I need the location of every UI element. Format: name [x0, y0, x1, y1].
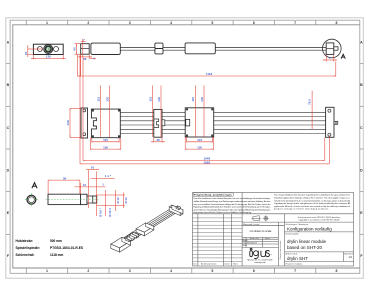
grid letters left	[7, 41, 10, 258]
svg-text:Fuer Konstruktionen unter Verw: Fuer Konstruktionen unter Verwendung der…	[194, 197, 271, 200]
svg-text:6: 6	[253, 269, 255, 273]
dim 130 under carriage1	[90, 138, 120, 150]
vertical dims mid support	[153, 86, 161, 138]
svg-text:Bearb. Dat.: Bearb. Dat.	[250, 237, 260, 240]
svg-text:Hub/stroke:: Hub/stroke:	[16, 239, 34, 243]
svg-text:8: 8	[336, 269, 338, 273]
svg-text:1: 1	[46, 21, 48, 25]
shaft detail body	[48, 194, 81, 204]
plan left end plate	[81, 108, 88, 138]
projection symbol	[252, 215, 270, 221]
svg-text:regarding the design and/or co: regarding the design and/or completeness…	[274, 202, 351, 205]
svg-text:26/04/2017: 26/04/2017	[247, 243, 258, 245]
svg-text:Massstab / scale: Massstab / scale	[243, 223, 260, 226]
svg-text:Spicher Str. 1a, 51147 Koeln: Spicher Str. 1a, 51147 Koeln	[247, 258, 272, 261]
svg-text:40: 40	[73, 47, 77, 51]
svg-text:Blatt Sheet: Blatt Sheet	[344, 252, 353, 255]
middle column	[277, 222, 279, 266]
plan right end plate	[326, 107, 334, 137]
svg-text:The responsibility for the dec: The responsibility for the decision rega…	[274, 194, 350, 197]
svg-text:130: 130	[46, 55, 51, 59]
svg-text:Ersatz für / replaces: Ersatz für / replaces	[286, 263, 303, 266]
svg-text:product already in further dev: product already in further developed pro…	[274, 208, 329, 211]
svg-text:115: 115	[191, 97, 195, 102]
svg-text:2: 2	[87, 21, 89, 25]
dim 115 under carriage2	[187, 137, 213, 142]
legal text right column	[274, 194, 351, 211]
small table	[243, 237, 270, 247]
svg-text:Aenderung/revision: Aenderung/revision	[201, 262, 216, 265]
long dim 1046	[83, 57, 325, 160]
svg-text:Schutzvermerk nach DIN ISO 160: Schutzvermerk nach DIN ISO 16016 beachte…	[298, 216, 342, 219]
side view motor block	[91, 43, 120, 54]
svg-text:volved in the development of a: volved in the development of a customize…	[274, 199, 351, 202]
svg-text:8: 8	[336, 21, 338, 25]
svg-text:Norm: Norm	[243, 245, 248, 247]
legal text left column	[193, 193, 233, 196]
svg-text:Konfiguration vorläufig: Konfiguration vorläufig	[287, 226, 332, 231]
svg-text:20: 20	[24, 51, 28, 55]
end view center bearing	[44, 45, 53, 54]
grid ticks left	[6, 64, 10, 235]
svg-text:von uns erstellten Konstruktio: von uns erstellten Konstruktionen oblieg…	[194, 203, 271, 206]
svg-text:based on SHT-20: based on SHT-20	[287, 245, 323, 250]
svg-text:500 mm: 500 mm	[50, 239, 62, 243]
long dim 1092	[80, 55, 329, 164]
svg-text:1118 mm: 1118 mm	[50, 253, 63, 257]
svg-text:4: 4	[170, 21, 172, 25]
svg-text:108: 108	[66, 120, 70, 125]
svg-text:Ø 10.4: Ø 10.4	[108, 208, 112, 217]
svg-text:Fragestellung: projektbezogen: Fragestellung: projektbezogen	[194, 194, 233, 197]
revision table rows	[193, 218, 243, 262]
svg-text:2: 2	[87, 269, 89, 273]
iso motor block	[111, 237, 131, 248]
svg-text:1.1 *: 1.1 *	[105, 174, 112, 178]
svg-text:Name: Name	[265, 238, 270, 240]
plan carriage 2	[185, 108, 214, 137]
dim 10 lower	[75, 183, 106, 194]
svg-text:Name: Name	[233, 263, 238, 265]
grid ticks bottom	[26, 268, 316, 273]
dim 7 top of end plate	[81, 39, 86, 57]
detail circle end view	[27, 195, 36, 204]
dim 1.1	[91, 177, 115, 179]
dim 130 under end view	[31, 55, 66, 59]
svg-text:130: 130	[105, 96, 109, 101]
svg-text:drylin linear module: drylin linear module	[287, 239, 327, 244]
dim 36 above shaft	[48, 180, 80, 194]
dim under detail circle	[323, 55, 337, 62]
svg-text:36: 36	[83, 57, 87, 61]
svg-text:individual applications belong: individual applications belongs solely t…	[274, 197, 350, 200]
svg-text:1/1: 1/1	[349, 255, 353, 259]
svg-text:115: 115	[103, 138, 108, 142]
svg-text:Spindel/spindle:: Spindel/spindle:	[16, 246, 41, 250]
side view end plate	[81, 44, 90, 55]
plan middle support	[154, 109, 162, 137]
iso carriage	[136, 223, 154, 232]
svg-text:115: 115	[148, 97, 152, 102]
dim 108 left of plan	[70, 109, 81, 138]
vertical dim right 76.5	[311, 91, 313, 130]
right column	[285, 221, 354, 223]
dim 10	[86, 170, 99, 217]
svg-text:6: 6	[253, 21, 255, 25]
svg-text:application. All tests, checks: application. All tests, checks and trial…	[274, 205, 350, 208]
svg-text:130: 130	[200, 96, 204, 101]
dim 130 under carriage2	[185, 137, 214, 150]
svg-text:10: 10	[91, 165, 95, 169]
svg-text:drylin SHT: drylin SHT	[287, 256, 308, 261]
svg-text:www.igus.de: www.igus.de	[254, 262, 266, 264]
end nut block in detail circle	[326, 43, 334, 55]
iso end plate	[169, 205, 183, 211]
svg-text:115: 115	[197, 138, 202, 142]
iso end nub	[176, 206, 180, 208]
svg-text:130: 130	[157, 96, 161, 101]
end view body	[33, 44, 63, 54]
grid numbers bottom	[46, 269, 338, 273]
svg-text:not drawn to scale: not drawn to scale	[250, 229, 272, 233]
vertical dims carriage1 115/130	[101, 86, 110, 138]
svg-text:geschehen ist. Vorschlaege, An: geschehen ist. Vorschlaege, Anregungen o…	[194, 208, 272, 211]
green centerline	[46, 199, 99, 201]
svg-text:Ø 10: Ø 10	[124, 197, 128, 204]
svg-text:3: 3	[129, 269, 131, 273]
svg-text:130: 130	[103, 145, 108, 149]
dim 36 below end plate	[78, 54, 92, 76]
svg-text:begruenden keine Rechte. Kopie: begruenden keine Rechte. Kopien nur mit …	[194, 211, 252, 214]
plan carriage 1	[91, 109, 120, 138]
rails	[120, 112, 325, 133]
dim 115 under carriage1	[92, 138, 119, 143]
svg-text:4: 4	[170, 269, 172, 273]
svg-text:Benennung/title: Benennung/title	[286, 233, 299, 236]
svg-text:Zust.: Zust.	[193, 262, 197, 265]
iso coupling2	[127, 235, 134, 238]
label A right	[341, 54, 345, 58]
detail circle A	[323, 39, 342, 58]
iso rail	[124, 208, 178, 240]
dim 20 left of end view	[28, 45, 43, 57]
svg-text:130: 130	[197, 145, 202, 149]
shaft segment 2	[163, 46, 185, 48]
end view right hole	[54, 47, 59, 52]
iso support block	[131, 232, 139, 236]
dim 40 left of side view	[75, 44, 81, 55]
igus logo	[250, 248, 270, 258]
svg-text:1: 1	[46, 269, 48, 273]
svg-text:5: 5	[211, 21, 213, 25]
dim 1 tiny	[89, 57, 96, 59]
svg-text:76.5: 76.5	[307, 99, 311, 105]
svg-text:1118: 1118	[206, 72, 213, 76]
svg-text:Datum: Datum	[225, 262, 231, 265]
svg-text:Ø 9.6 *: Ø 9.6 *	[99, 207, 103, 217]
svg-text:36: 36	[63, 176, 67, 180]
svg-text:PTGSG-18X4-01-R-ES: PTGSG-18X4-01-R-ES	[50, 246, 83, 250]
svg-text:3: 3	[129, 21, 131, 25]
overall dim 1118	[78, 55, 336, 77]
svg-text:Urheberschutz beachten: Urheberschutz beachten	[279, 241, 282, 259]
svg-text:10: 10	[83, 183, 87, 187]
svg-text:36: 36	[156, 138, 160, 142]
grid ticks top	[26, 21, 316, 25]
shaft segment 3	[215, 46, 326, 48]
vertical dims carriage2	[195, 86, 204, 138]
shaft segment 1	[120, 46, 155, 48]
label A	[32, 183, 37, 189]
diameter dims right	[97, 190, 126, 216]
horizontal main split under legal text	[193, 213, 354, 215]
svg-text:115: 115	[96, 97, 100, 102]
svg-text:Schiene/rail:: Schiene/rail:	[16, 253, 35, 257]
grid ticks right	[360, 64, 364, 235]
grid numbers top	[46, 21, 338, 25]
svg-text:1092: 1092	[203, 160, 210, 164]
svg-text:Copyright in accordance with D: Copyright in accordance with DIN ISO 160…	[298, 219, 340, 222]
end view left hole	[37, 47, 42, 52]
svg-text:stellten Entwurfsvorschlaege u: stellten Entwurfsvorschlaege und Zeichnu…	[194, 200, 272, 203]
inner drawing frame	[13, 25, 360, 268]
coupling	[155, 43, 163, 48]
grid letters right	[360, 41, 363, 258]
svg-text:Ø 12: Ø 12	[116, 197, 120, 204]
svg-text:7: 7	[294, 21, 296, 25]
svg-text:5: 5	[211, 269, 213, 273]
iso coupling1	[125, 237, 131, 240]
dim 36 under middle support	[151, 137, 165, 142]
svg-text:Eignung und Ausfuehrbarkeit de: Eignung und Ausfuehrbarkeit dem Kunden, …	[194, 206, 271, 209]
revision header labels	[193, 262, 238, 265]
svg-text:7: 7	[294, 269, 296, 273]
side view carriage	[185, 43, 215, 54]
revision table verticals	[197, 214, 199, 266]
